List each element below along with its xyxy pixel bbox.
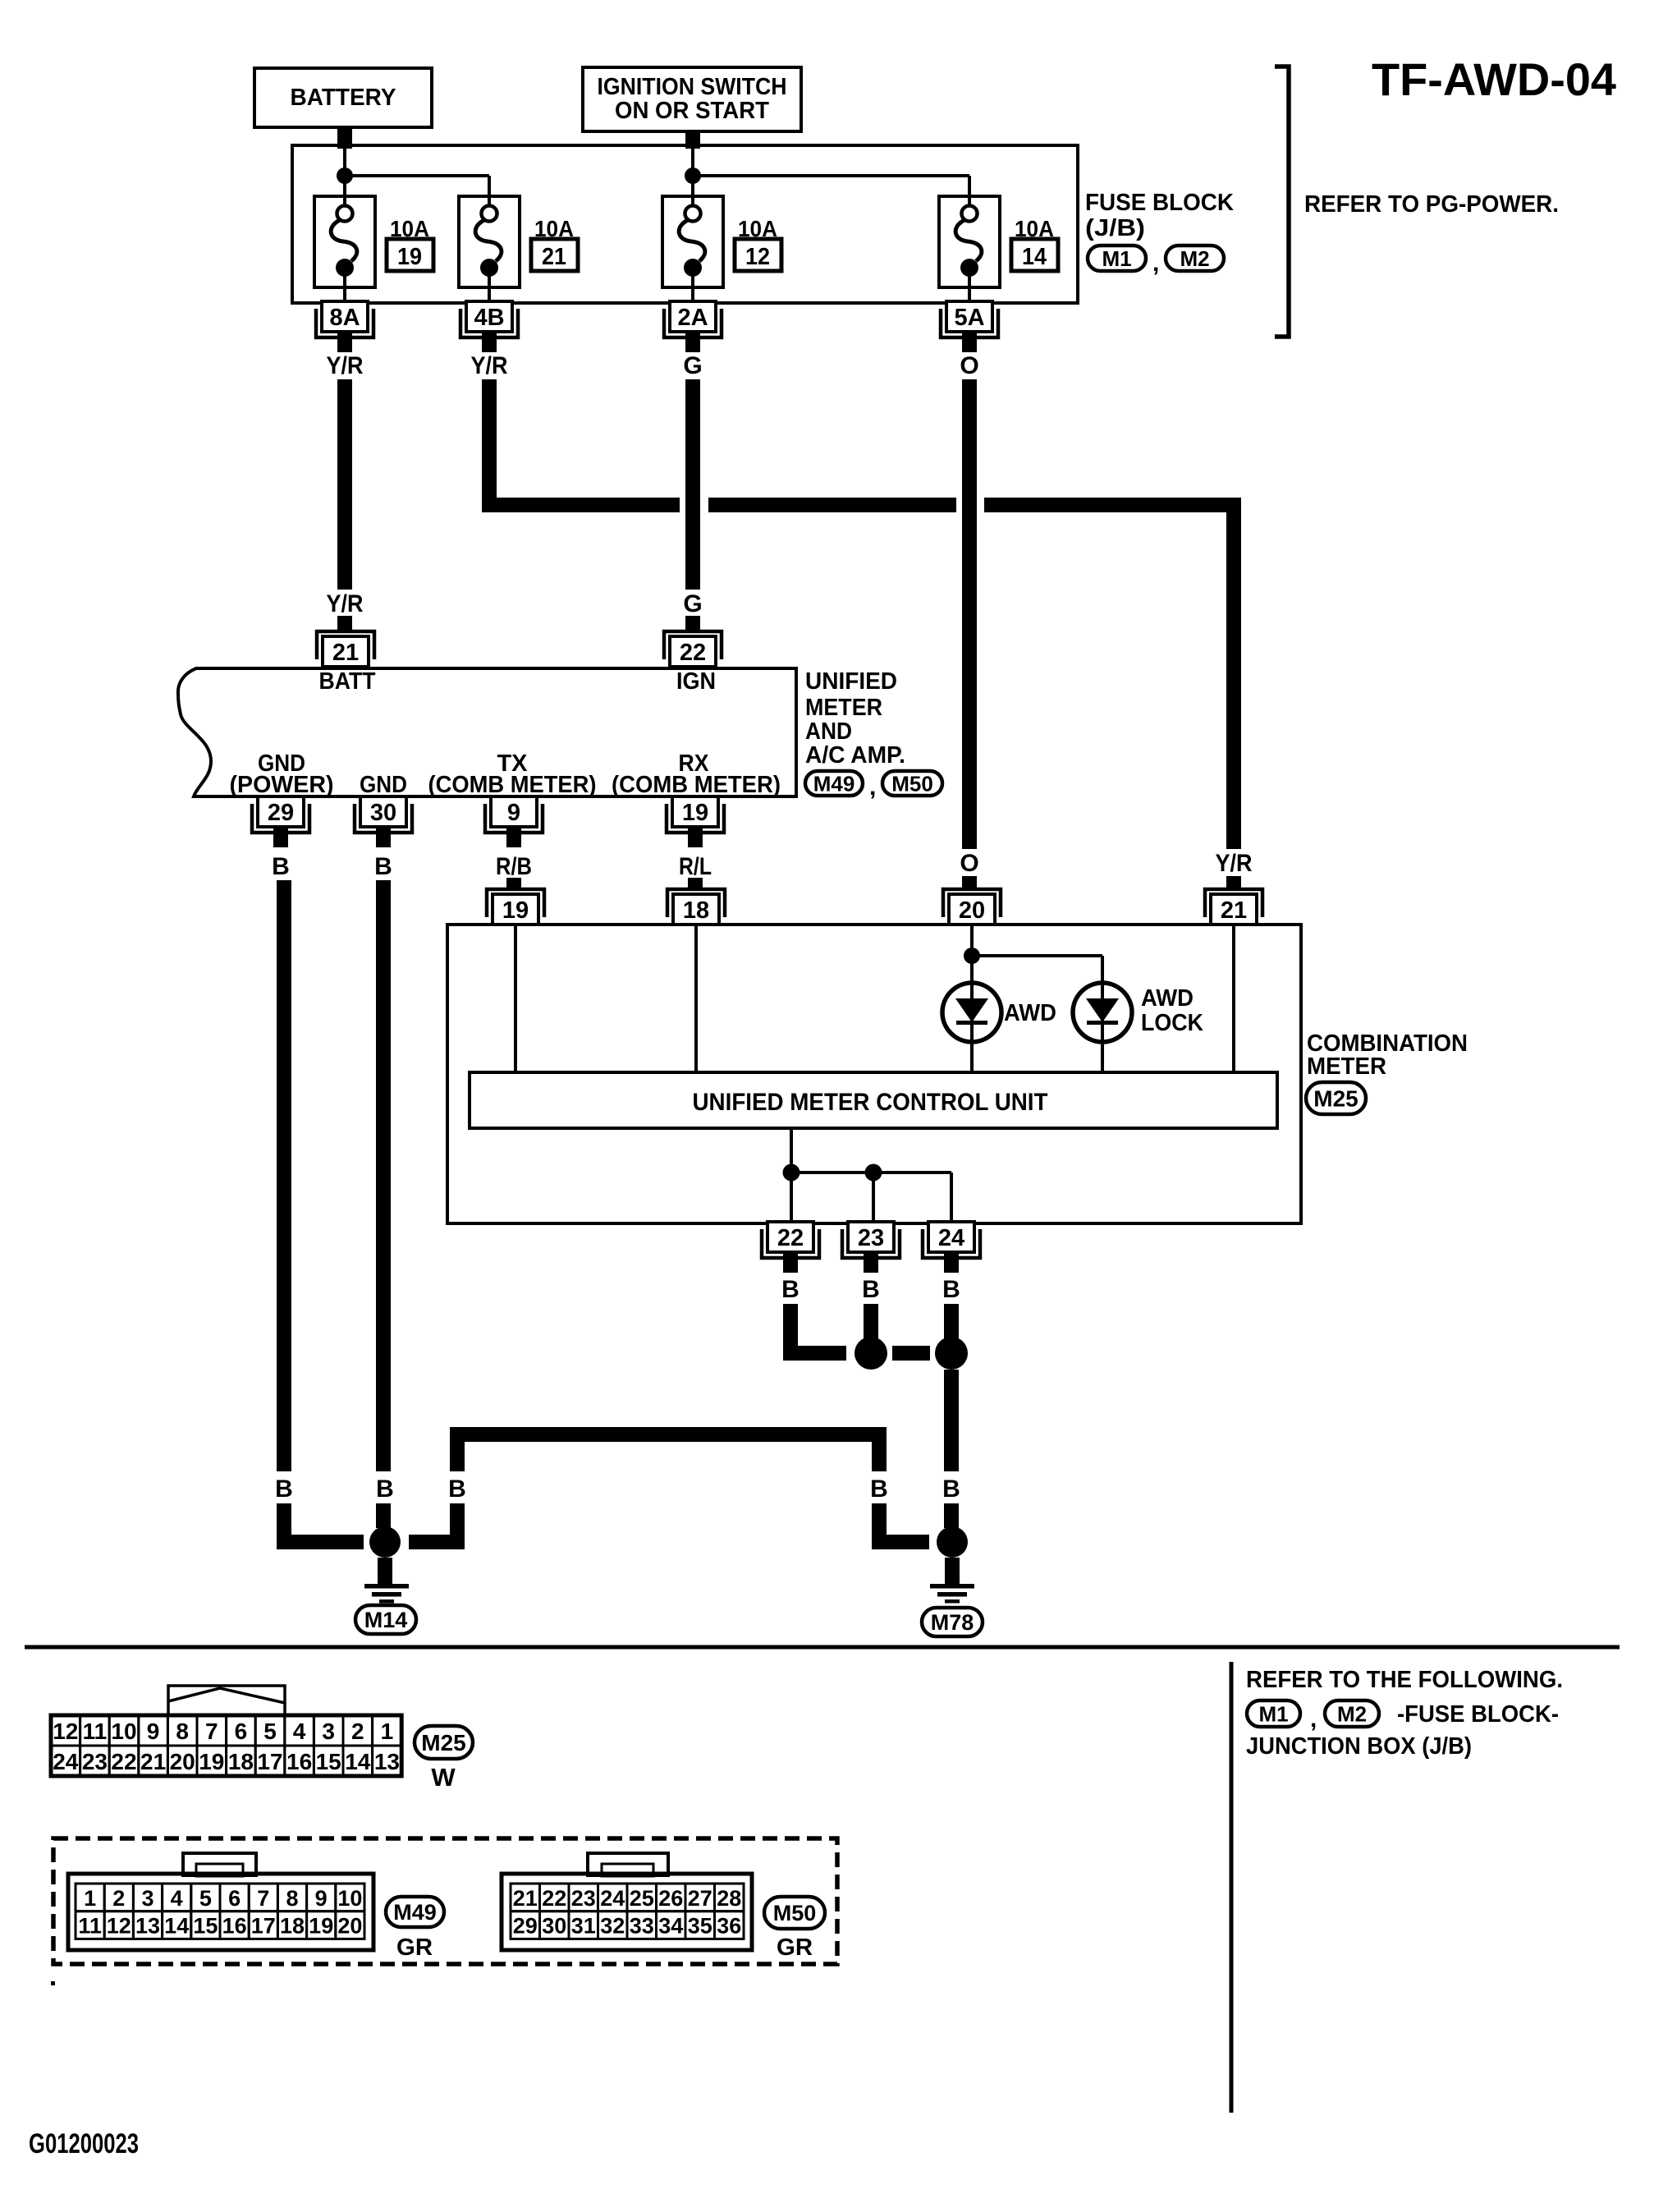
svg-text:8: 8 <box>286 1886 298 1911</box>
svg-text:-FUSE BLOCK-: -FUSE BLOCK- <box>1397 1701 1559 1728</box>
svg-text:30: 30 <box>370 800 396 826</box>
wire tap to AWD LOCK LED <box>972 956 1102 1072</box>
svg-text:R/L: R/L <box>679 853 712 880</box>
wire O stub into CM pin20 <box>962 876 977 889</box>
svg-text:19: 19 <box>682 800 708 826</box>
connector 8A <box>316 301 373 352</box>
wire ignition stub <box>685 131 700 149</box>
svg-text:25: 25 <box>630 1886 654 1911</box>
svg-text:ON OR START: ON OR START <box>615 98 769 124</box>
wire ground tie horizontal <box>450 1427 887 1471</box>
node gnd join 1 <box>854 1337 887 1370</box>
svg-text:22: 22 <box>542 1886 566 1911</box>
svg-text:16: 16 <box>222 1914 247 1939</box>
svg-text:33: 33 <box>630 1914 654 1939</box>
wire O 5A down to CM pin20 <box>962 379 977 849</box>
node battery junction <box>337 168 353 184</box>
svg-text:M49: M49 <box>813 771 855 796</box>
wire between gnd joins <box>892 1346 930 1361</box>
svg-text:28: 28 <box>717 1886 741 1911</box>
svg-text:13: 13 <box>135 1914 160 1939</box>
ground ref M78 oval <box>922 1608 983 1636</box>
connector ref M1 oval footer <box>1247 1700 1300 1727</box>
svg-text:5A: 5A <box>954 305 984 331</box>
svg-text:23: 23 <box>858 1225 884 1251</box>
svg-text:3: 3 <box>322 1719 335 1744</box>
svg-text:20: 20 <box>170 1749 195 1774</box>
svg-text:M1: M1 <box>1258 1701 1288 1726</box>
connector 4B <box>460 301 518 352</box>
fuse 10A 12 <box>662 196 781 301</box>
svg-text:AWD: AWD <box>1004 1000 1056 1026</box>
wire Y/R bus horizontal <box>482 498 1241 512</box>
wire into M78 dot <box>944 1503 959 1528</box>
battery box <box>254 68 432 127</box>
wire G 2A to IGN pin22 <box>685 379 700 631</box>
label GND (POWER) <box>230 750 334 798</box>
svg-text:19: 19 <box>199 1749 224 1774</box>
svg-text:Y/R: Y/R <box>1216 850 1253 877</box>
svg-text:M50: M50 <box>773 1901 817 1925</box>
svg-text:14: 14 <box>1022 244 1047 270</box>
svg-text:G01200023: G01200023 <box>29 2128 139 2159</box>
svg-text:18: 18 <box>280 1914 305 1939</box>
fuse 10A 21 <box>459 196 578 301</box>
svg-text:24: 24 <box>938 1225 964 1251</box>
svg-text:14: 14 <box>345 1749 371 1774</box>
svg-text:M78: M78 <box>931 1610 974 1635</box>
svg-text:23: 23 <box>571 1886 596 1911</box>
svg-text:METER: METER <box>805 695 882 721</box>
svg-text:10: 10 <box>337 1886 362 1911</box>
svg-text:B: B <box>862 1276 880 1303</box>
node AWD tap <box>964 948 980 964</box>
wire battery stub <box>337 127 352 149</box>
svg-text:IGNITION SWITCH: IGNITION SWITCH <box>598 74 787 100</box>
svg-text:7: 7 <box>257 1886 269 1911</box>
svg-text:17: 17 <box>257 1749 282 1774</box>
wire M14 dot to ground <box>378 1558 392 1584</box>
label UNIFIED METER AND A/C AMP. <box>805 668 905 769</box>
node UMCU gnd 2 <box>865 1164 882 1182</box>
svg-text:8A: 8A <box>329 305 360 331</box>
svg-text:9: 9 <box>507 800 520 826</box>
svg-text:29: 29 <box>268 800 294 826</box>
svg-text:15: 15 <box>193 1914 218 1939</box>
connector pin 9 <box>485 796 543 847</box>
ground symbol M78 <box>930 1584 974 1604</box>
svg-text:(COMB METER): (COMB METER) <box>612 772 781 798</box>
wire pin18 to UMCU <box>694 925 698 1072</box>
svg-text:10: 10 <box>111 1719 136 1744</box>
wire gnd join2 to M78 <box>944 1370 959 1471</box>
svg-text:24: 24 <box>600 1886 625 1911</box>
svg-text:6: 6 <box>235 1719 248 1744</box>
svg-text:35: 35 <box>688 1914 712 1939</box>
svg-text:4: 4 <box>171 1886 183 1911</box>
svg-text:31: 31 <box>571 1914 596 1939</box>
connector ref M2 oval <box>1166 246 1224 271</box>
wire UMCU to ground header <box>791 1128 951 1222</box>
ground symbol M14 <box>364 1584 409 1604</box>
svg-text:M50: M50 <box>891 771 933 796</box>
svg-text:2: 2 <box>112 1886 125 1911</box>
connector pin 24 CM <box>923 1222 980 1273</box>
connector pin 19 <box>667 796 724 847</box>
svg-text:36: 36 <box>717 1914 741 1939</box>
label FUSE BLOCK (J/B) <box>1085 190 1234 241</box>
svg-text:M1: M1 <box>1102 246 1131 271</box>
svg-text:16: 16 <box>286 1749 312 1774</box>
svg-text:29: 29 <box>513 1914 538 1939</box>
connector pin 19 CM <box>487 889 544 925</box>
wire pin19 to UMCU <box>514 925 517 1072</box>
svg-text:17: 17 <box>251 1914 276 1939</box>
fuse block J/B box <box>292 145 1078 303</box>
wire Y/R stub into CM pin21 <box>1226 876 1241 889</box>
svg-text:24: 24 <box>53 1749 79 1774</box>
svg-text:22: 22 <box>680 640 706 666</box>
connector pin 23 CM <box>842 1222 900 1273</box>
svg-text:M25: M25 <box>1313 1086 1358 1112</box>
svg-text:4B: 4B <box>474 305 504 331</box>
svg-text:B: B <box>870 1475 888 1503</box>
wire pin21 to UMCU <box>1232 925 1235 1072</box>
wire R/B stub into CM pin19 <box>506 878 521 889</box>
svg-text:Y/R: Y/R <box>327 352 364 379</box>
svg-text:B: B <box>272 853 290 880</box>
svg-text:(POWER): (POWER) <box>230 772 334 798</box>
svg-text:M2: M2 <box>1337 1701 1367 1726</box>
svg-text:GR: GR <box>777 1934 813 1961</box>
svg-text:G: G <box>683 352 702 379</box>
svg-text:34: 34 <box>658 1914 683 1939</box>
wire Y/R bus right drop <box>1226 498 1241 849</box>
label TX (COMB METER) <box>428 750 597 798</box>
svg-text:TF-AWD-04: TF-AWD-04 <box>1372 53 1616 105</box>
svg-text:1: 1 <box>381 1719 394 1744</box>
svg-text:20: 20 <box>337 1914 362 1939</box>
wire R/L stub into CM pin18 <box>688 878 703 889</box>
unified meter control unit box <box>470 1072 1277 1128</box>
label AWD LOCK <box>1141 985 1203 1036</box>
svg-text:(J/B): (J/B) <box>1085 215 1145 241</box>
dashed harness connector box <box>53 1838 837 1964</box>
svg-text:M25: M25 <box>421 1730 465 1755</box>
svg-text:21: 21 <box>332 640 359 666</box>
connector pinout M25 grid <box>51 1715 401 1776</box>
svg-text:5: 5 <box>263 1719 277 1744</box>
svg-text:,: , <box>1152 250 1159 277</box>
connector 5A <box>941 301 998 352</box>
connector pin 30 <box>355 796 412 847</box>
svg-text:12: 12 <box>53 1719 78 1744</box>
svg-text:18: 18 <box>683 897 709 924</box>
svg-text:BATTERY: BATTERY <box>291 85 396 111</box>
svg-text:4: 4 <box>293 1719 306 1744</box>
svg-text:11: 11 <box>78 1914 102 1939</box>
svg-text:13: 13 <box>374 1749 400 1774</box>
ground ref M14 oval <box>355 1605 416 1634</box>
connector pin 21 BATT <box>317 631 374 667</box>
svg-text:12: 12 <box>107 1914 131 1939</box>
svg-text:32: 32 <box>600 1914 625 1939</box>
wire ignition feed inside fuse block <box>693 147 969 206</box>
svg-text:B: B <box>781 1276 800 1303</box>
svg-text:14: 14 <box>164 1914 189 1939</box>
svg-text:22: 22 <box>777 1225 804 1251</box>
svg-text:REFER TO THE FOLLOWING.: REFER TO THE FOLLOWING. <box>1246 1667 1563 1693</box>
svg-text:(COMB METER): (COMB METER) <box>428 772 597 798</box>
connector pin 20 CM <box>943 889 1001 925</box>
svg-text:1: 1 <box>84 1886 96 1911</box>
svg-text:UNIFIED: UNIFIED <box>805 668 897 695</box>
wire B pin30 into M14 dot <box>376 1503 391 1528</box>
wire Y/R 4B down to bus <box>482 379 497 512</box>
connector pin 29 <box>252 796 309 847</box>
svg-text:O: O <box>960 352 978 379</box>
LED AWD LOCK <box>1073 983 1132 1042</box>
svg-text:8: 8 <box>176 1719 189 1744</box>
fuse 10A 14 <box>939 196 1058 301</box>
wire B pin24 down <box>944 1304 959 1338</box>
svg-text:M14: M14 <box>364 1608 408 1632</box>
node ground M78 <box>937 1526 968 1558</box>
bracket right <box>1275 67 1289 337</box>
connector ref M2 oval footer <box>1325 1700 1379 1727</box>
node ignition junction <box>685 168 701 184</box>
node gnd join 2 <box>935 1337 968 1370</box>
svg-text:7: 7 <box>205 1719 218 1744</box>
connector ref M1 oval <box>1088 246 1146 271</box>
svg-text:B: B <box>942 1276 960 1303</box>
connector ref M25 oval footer <box>415 1726 473 1759</box>
svg-text:21: 21 <box>513 1886 538 1911</box>
wire B pin22 elbow <box>783 1304 846 1361</box>
svg-text:Y/R: Y/R <box>471 352 508 379</box>
svg-text:30: 30 <box>542 1914 566 1939</box>
svg-text:15: 15 <box>316 1749 341 1774</box>
svg-text:6: 6 <box>228 1886 241 1911</box>
unified meter and A/C amp box <box>178 668 796 796</box>
connector ref M49 oval footer <box>386 1897 444 1927</box>
connector pin 21 CM <box>1205 889 1262 925</box>
stray dot mark <box>51 1981 55 1985</box>
wire tie right elbow to M78 <box>872 1503 929 1549</box>
svg-text:22: 22 <box>111 1749 136 1774</box>
wire battery feed inside fuse block <box>345 147 489 206</box>
node ground M14 <box>369 1526 401 1558</box>
combination meter box <box>447 925 1301 1223</box>
svg-text:2: 2 <box>351 1719 364 1744</box>
svg-text:B: B <box>376 1475 394 1503</box>
connector pin 18 CM <box>667 889 725 925</box>
wire B pin30 long down <box>376 880 391 1471</box>
connector 2A <box>664 301 722 352</box>
svg-text:UNIFIED METER CONTROL UNIT: UNIFIED METER CONTROL UNIT <box>693 1089 1048 1116</box>
svg-text:M49: M49 <box>393 1900 437 1925</box>
svg-text:B: B <box>374 853 392 880</box>
wire M78 dot to ground <box>945 1558 960 1584</box>
svg-text:2A: 2A <box>677 305 708 331</box>
svg-text:,: , <box>869 773 876 801</box>
ignition switch box <box>583 67 801 131</box>
svg-text:19: 19 <box>397 244 422 270</box>
node UMCU gnd 1 <box>783 1164 800 1182</box>
svg-text:FUSE BLOCK: FUSE BLOCK <box>1085 190 1234 216</box>
wire tie left elbow to M14 <box>409 1503 465 1549</box>
svg-text:W: W <box>431 1763 456 1792</box>
wire pin20 to UMCU through AWD LED <box>970 925 974 1072</box>
separator line <box>25 1645 1620 1650</box>
svg-text:Y/R: Y/R <box>327 590 364 617</box>
svg-text:GR: GR <box>396 1934 433 1961</box>
svg-text:R/B: R/B <box>496 853 532 880</box>
svg-text:9: 9 <box>315 1886 328 1911</box>
svg-text:5: 5 <box>199 1886 212 1911</box>
wire B pin29 elbow to M14 <box>277 1503 364 1549</box>
connector pinout M25 tab <box>168 1686 285 1715</box>
svg-text:21: 21 <box>542 244 566 270</box>
svg-text:11: 11 <box>83 1719 108 1744</box>
svg-text:,: , <box>1310 1705 1317 1732</box>
svg-text:REFER TO PG-POWER.: REFER TO PG-POWER. <box>1304 191 1559 218</box>
svg-text:9: 9 <box>147 1719 160 1744</box>
connector ref M49 oval <box>805 771 863 796</box>
svg-text:21: 21 <box>1221 897 1247 924</box>
svg-text:19: 19 <box>502 897 529 924</box>
svg-text:21: 21 <box>140 1749 166 1774</box>
svg-text:12: 12 <box>745 244 770 270</box>
svg-text:O: O <box>960 850 978 877</box>
svg-text:LOCK: LOCK <box>1141 1010 1203 1036</box>
svg-text:B: B <box>942 1475 960 1503</box>
svg-text:AWD: AWD <box>1141 985 1194 1012</box>
svg-text:IGN: IGN <box>676 668 716 695</box>
wire B pin29 long down <box>277 880 291 1471</box>
svg-text:GND: GND <box>360 772 407 798</box>
svg-text:A/C AMP.: A/C AMP. <box>805 742 905 769</box>
svg-text:3: 3 <box>141 1886 153 1911</box>
svg-text:19: 19 <box>309 1914 333 1939</box>
svg-text:27: 27 <box>688 1886 712 1911</box>
connector ref M25 oval <box>1306 1082 1366 1114</box>
connector pinout M49 <box>68 1853 373 1950</box>
wire Y/R 8A to BATT pin21 <box>337 379 352 631</box>
label COMBINATION METER <box>1307 1030 1468 1080</box>
fuse 10A 19 <box>314 196 433 301</box>
svg-text:BATT: BATT <box>319 668 376 695</box>
connector pin 22 IGN <box>664 631 722 667</box>
svg-text:M2: M2 <box>1180 246 1209 271</box>
footer divider vertical <box>1230 1662 1234 2113</box>
svg-text:METER: METER <box>1307 1053 1386 1080</box>
svg-text:20: 20 <box>959 897 985 924</box>
wire B pin23 down <box>864 1304 878 1338</box>
svg-text:18: 18 <box>228 1749 254 1774</box>
svg-text:G: G <box>683 590 702 617</box>
LED AWD <box>942 983 1001 1042</box>
svg-text:B: B <box>448 1475 466 1503</box>
connector pin 22 CM <box>762 1222 819 1273</box>
connector ref M50 oval footer <box>764 1897 825 1929</box>
connector pinout M50 <box>502 1853 752 1950</box>
svg-text:26: 26 <box>658 1886 683 1911</box>
svg-text:JUNCTION BOX (J/B): JUNCTION BOX (J/B) <box>1246 1733 1472 1760</box>
svg-text:B: B <box>275 1475 293 1503</box>
label RX (COMB METER) <box>612 750 781 798</box>
svg-text:AND: AND <box>805 718 852 745</box>
svg-text:23: 23 <box>82 1749 108 1774</box>
connector ref M50 oval <box>882 771 942 796</box>
